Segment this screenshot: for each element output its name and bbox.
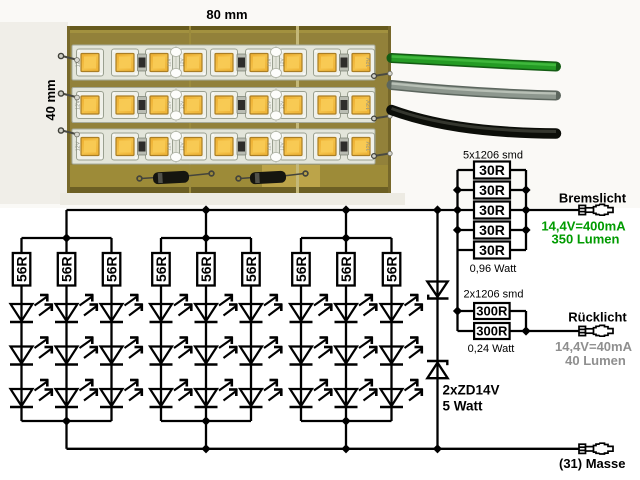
LED D1a — [10, 294, 53, 322]
svg-text:56R: 56R — [153, 256, 169, 282]
svg-text:30R: 30R — [479, 242, 505, 258]
svg-text:56R: 56R — [243, 256, 259, 282]
svg-text:12V: 12V — [280, 141, 286, 150]
LED D5a — [195, 294, 238, 322]
resistor R8 56R — [337, 253, 355, 286]
12V marks row 3 — [76, 141, 373, 151]
resistor 300R #1 — [474, 303, 510, 319]
svg-text:12V: 12V — [76, 141, 82, 151]
LED D4b — [150, 337, 193, 365]
LED D8b — [335, 337, 378, 365]
SMD resistors row 3 — [138, 138, 349, 155]
svg-text:56R: 56R — [338, 256, 354, 282]
30R lead wires row 2 — [458, 189, 475, 191]
solder pads row 3 — [171, 131, 282, 161]
30R lead wires row 1 — [458, 169, 475, 171]
svg-text:Rücklicht: Rücklicht — [568, 310, 627, 325]
LED D3c — [100, 379, 143, 407]
30R lead wires row 5 — [458, 249, 475, 251]
svg-text:56R: 56R — [293, 256, 309, 282]
LED D7b — [290, 337, 333, 365]
group 1 bottom wire — [22, 420, 112, 422]
30R lead wires row 3 — [458, 209, 475, 211]
svg-text:0,24 Watt: 0,24 Watt — [468, 343, 515, 355]
300R right rail wire — [525, 311, 527, 331]
svg-text:Bremslicht: Bremslicht — [559, 191, 627, 206]
Ruecklicht output wire — [526, 330, 579, 332]
group 3 top wire — [301, 237, 392, 239]
string 9 wire — [390, 238, 392, 421]
group 2 bottom stub wire — [205, 421, 207, 449]
black wire — [392, 110, 557, 134]
svg-text:56R: 56R — [384, 256, 400, 282]
svg-text:56R: 56R — [104, 256, 120, 282]
bottom rail wire — [67, 448, 580, 450]
svg-text:56R: 56R — [198, 256, 214, 282]
LED D5c — [195, 379, 238, 407]
30R stack left rail wire — [456, 170, 458, 331]
LED D3b — [100, 337, 143, 365]
zener diode ZD1 — [427, 282, 449, 299]
string 4 wire — [160, 238, 162, 421]
svg-text:350 Lumen: 350 Lumen — [552, 232, 620, 247]
string 6 wire — [250, 238, 252, 421]
svg-text:12V: 12V — [366, 141, 372, 151]
svg-text:12V: 12V — [280, 57, 286, 66]
LED D6a — [240, 294, 283, 322]
300R lead wires row 2 — [458, 330, 475, 332]
LED D8a — [335, 294, 378, 322]
group 1 bottom stub wire — [65, 421, 67, 449]
string 7 wire — [300, 238, 302, 421]
top bus wire — [67, 209, 458, 211]
LED D1c — [10, 379, 53, 407]
group 1 top stub wire — [65, 210, 67, 238]
LED strip row 1 — [72, 45, 375, 80]
LED D6b — [240, 337, 283, 365]
LED strip row 3 — [72, 129, 375, 164]
svg-text:0,96 Watt: 0,96 Watt — [470, 263, 517, 275]
LED D4c — [150, 379, 193, 407]
svg-text:12V: 12V — [167, 141, 173, 150]
group 2 top stub wire — [205, 210, 207, 238]
LED D9b — [380, 337, 423, 365]
svg-text:12V: 12V — [267, 100, 273, 109]
svg-text:56R: 56R — [14, 256, 30, 282]
svg-text:12V: 12V — [267, 141, 273, 150]
LED packages row 3 — [77, 133, 375, 160]
svg-text:56R: 56R — [59, 256, 75, 282]
resistor R2 56R — [58, 253, 76, 286]
photo backdrop — [0, 0, 640, 208]
Ruecklicht connector — [579, 325, 613, 336]
junction dots bottom rail — [201, 444, 442, 453]
SMD resistors row 1 — [138, 54, 349, 71]
LED D2b — [55, 337, 98, 365]
solder pads row 1 — [171, 47, 282, 77]
12V marks row 1 — [76, 57, 373, 67]
resistor R9 56R — [383, 253, 401, 286]
LED packages row 1 — [77, 49, 375, 76]
LED D3a — [100, 294, 143, 322]
resistor R6 56R — [242, 253, 260, 286]
svg-text:2x1206 smd: 2x1206 smd — [464, 289, 524, 301]
svg-text:30R: 30R — [479, 162, 505, 178]
LED D7a — [290, 294, 333, 322]
zener diode ZD2 — [427, 361, 449, 378]
resistor 30R #4 — [474, 222, 510, 239]
right edge pins — [372, 71, 393, 158]
junction dots top bus — [201, 205, 462, 214]
svg-text:300R: 300R — [476, 324, 508, 339]
12V marks row 2 — [76, 100, 373, 110]
svg-text:12V: 12V — [366, 100, 372, 110]
PCB board — [67, 26, 391, 193]
string 8 wire — [345, 238, 347, 421]
svg-text:12V: 12V — [180, 57, 186, 66]
svg-text:14,4V=40mA: 14,4V=40mA — [555, 339, 633, 354]
LED D8c — [335, 379, 378, 407]
svg-text:12V: 12V — [76, 100, 82, 110]
svg-text:12V: 12V — [167, 100, 173, 109]
svg-text:30R: 30R — [479, 202, 505, 218]
resistor 30R #3 — [474, 202, 510, 219]
string 5 wire — [205, 238, 207, 421]
svg-text:40 Lumen: 40 Lumen — [565, 353, 626, 368]
group 3 top stub wire — [345, 210, 347, 238]
LED D9a — [380, 294, 423, 322]
junction dot 300R right — [521, 326, 530, 335]
Bremslicht connector — [579, 204, 613, 215]
LED D2c — [55, 379, 98, 407]
LED D6c — [240, 379, 283, 407]
resistor R1 56R — [13, 253, 31, 286]
zener branch wire — [436, 210, 438, 449]
30R lead wires row 4 — [458, 229, 475, 231]
resistor 300R #2 — [474, 323, 510, 339]
svg-text:12V: 12V — [280, 100, 286, 109]
Bremslicht output wire — [526, 209, 579, 211]
group 3 bottom stub wire — [345, 421, 347, 449]
LED D7c — [290, 379, 333, 407]
svg-text:12V: 12V — [366, 57, 372, 67]
group 3 bottom wire — [301, 420, 392, 422]
resistor R7 56R — [292, 253, 310, 286]
group 2 bottom wire — [161, 420, 251, 422]
svg-text:5x1206 smd: 5x1206 smd — [463, 150, 523, 162]
svg-text:12V: 12V — [180, 141, 186, 150]
resistor R3 56R — [103, 253, 121, 286]
LED D2a — [55, 294, 98, 322]
Masse connector — [579, 443, 613, 454]
300R lead wires row 1 — [458, 310, 475, 312]
svg-text:12V: 12V — [267, 57, 273, 66]
resistor R5 56R — [197, 253, 215, 286]
string 1 wire — [20, 238, 22, 421]
LED D4a — [150, 294, 193, 322]
resistor 30R #5 — [474, 242, 510, 259]
junction dot 300R left — [453, 306, 462, 315]
LED D9c — [380, 379, 423, 407]
junction dots 30R rails — [453, 185, 531, 234]
LED packages row 2 — [77, 92, 375, 119]
string 2 wire — [65, 238, 67, 421]
svg-text:5 Watt: 5 Watt — [443, 399, 484, 414]
svg-text:80 mm: 80 mm — [206, 7, 247, 22]
svg-text:2xZD14V: 2xZD14V — [443, 383, 500, 398]
svg-text:300R: 300R — [476, 304, 508, 319]
svg-text:(31) Masse: (31) Masse — [559, 456, 625, 471]
30R stack right rail wire — [525, 170, 527, 250]
resistor R4 56R — [152, 253, 170, 286]
junction dots group top wires — [62, 233, 351, 242]
gray wire — [392, 85, 557, 96]
resistor 30R #2 — [474, 182, 510, 199]
PCB diode 1 — [137, 171, 214, 185]
svg-text:40 mm: 40 mm — [43, 79, 58, 120]
resistor 30R #1 — [474, 162, 510, 179]
svg-text:12V: 12V — [167, 57, 173, 66]
PCB diode 2 — [236, 171, 308, 185]
svg-text:30R: 30R — [479, 182, 505, 198]
LED strip row 2 — [72, 88, 375, 123]
group 1 top wire — [22, 237, 112, 239]
svg-text:30R: 30R — [479, 222, 505, 238]
SMD resistors row 2 — [138, 97, 349, 114]
green wire — [392, 58, 557, 67]
string 3 wire — [110, 238, 112, 421]
junction dots group bottom wires — [62, 416, 351, 425]
LED D1b — [10, 337, 53, 365]
group 2 top wire — [161, 237, 251, 239]
solder pads row 2 — [171, 90, 282, 120]
svg-text:12V: 12V — [180, 100, 186, 109]
left edge pins — [58, 53, 79, 137]
LED D5b — [195, 337, 238, 365]
